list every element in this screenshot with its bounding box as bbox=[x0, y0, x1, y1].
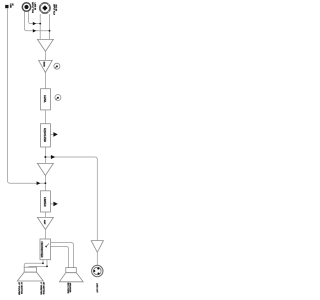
svg-text:15" WOOFER: 15" WOOFER bbox=[18, 282, 20, 295]
svg-text:INPUT TRS: INPUT TRS bbox=[31, 2, 33, 13]
svg-text:EXT. HORN: EXT. HORN bbox=[67, 283, 69, 294]
svg-text:LINK: LINK bbox=[9, 4, 11, 9]
svg-text:INPUT XLR: INPUT XLR bbox=[53, 4, 55, 15]
svg-text:LF SECTION: LF SECTION bbox=[20, 282, 22, 294]
svg-text:LINK OUT: LINK OUT bbox=[96, 283, 98, 293]
svg-text:EQUALIZER: EQUALIZER bbox=[43, 128, 46, 142]
svg-text:HF SECTION: HF SECTION bbox=[42, 282, 44, 295]
svg-text:1" TWEETER: 1" TWEETER bbox=[40, 282, 42, 295]
svg-text:LEVEL: LEVEL bbox=[43, 95, 46, 103]
svg-text:LIMITER: LIMITER bbox=[43, 197, 45, 207]
svg-text:AMP: AMP bbox=[43, 220, 46, 225]
svg-text:MIC IN: MIC IN bbox=[55, 5, 57, 12]
svg-text:SPEAKER: SPEAKER bbox=[69, 283, 72, 293]
svg-text:MAIN: MAIN bbox=[43, 62, 46, 67]
svg-text:LINE IN: LINE IN bbox=[33, 3, 35, 11]
svg-text:CROSSOVER: CROSSOVER bbox=[40, 241, 43, 257]
